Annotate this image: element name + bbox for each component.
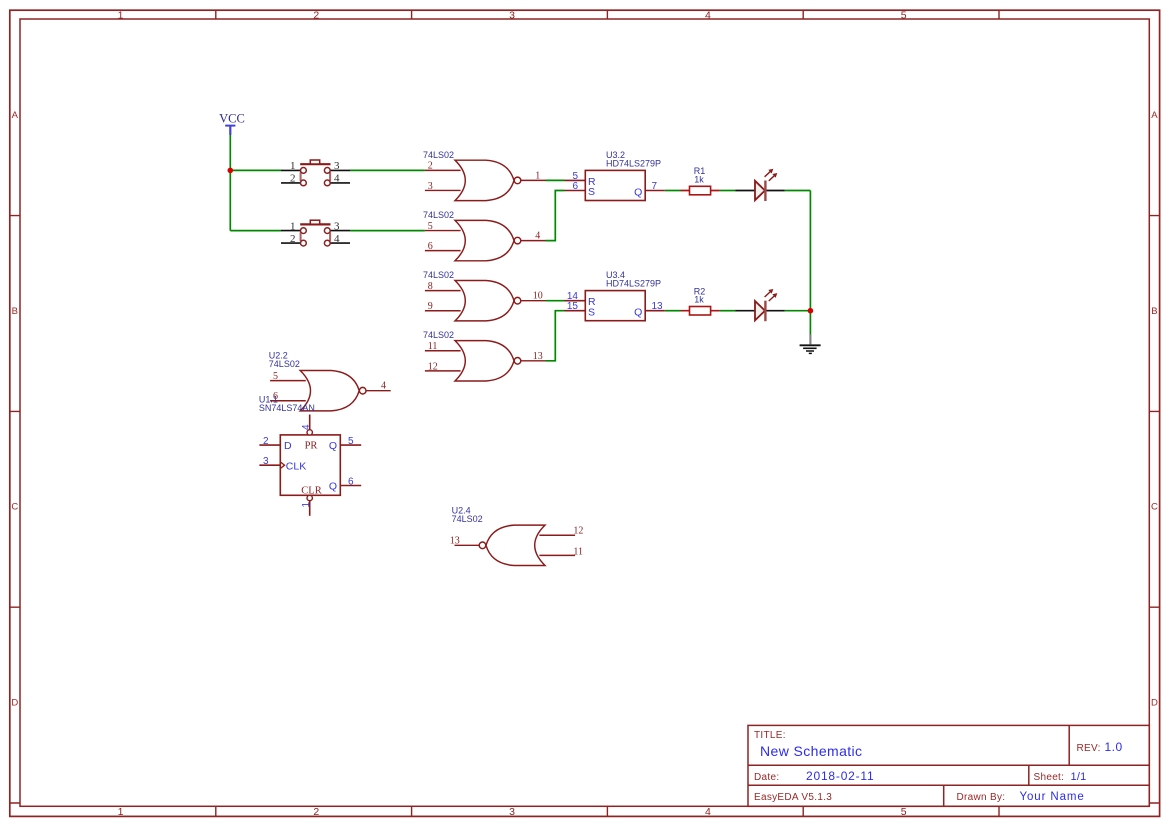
svg-text:2: 2: [313, 10, 319, 22]
svg-text:74LS02: 74LS02: [423, 270, 454, 280]
svg-text:C: C: [1151, 502, 1158, 513]
frame ruler numbers top: [118, 10, 907, 22]
svg-text:8: 8: [428, 281, 433, 292]
svg-text:D: D: [11, 697, 18, 708]
wire R1 to LED1: [720, 190, 736, 192]
frame ruler letters left: [11, 110, 18, 708]
svg-text:B: B: [12, 306, 18, 317]
svg-text:74LS02: 74LS02: [269, 359, 300, 369]
NOR gate U2.4 mirrored: [450, 506, 584, 566]
svg-text:A: A: [1151, 110, 1158, 121]
resistor R2: [681, 286, 720, 315]
svg-text:10: 10: [533, 291, 543, 302]
svg-text:HD74LS279P: HD74LS279P: [606, 158, 661, 168]
wire S1 pin3 to U2 pin2: [350, 169, 425, 171]
svg-text:B: B: [1151, 306, 1157, 317]
svg-text:2: 2: [290, 233, 296, 245]
svg-text:1: 1: [301, 502, 312, 508]
wire U3.2 Q to R1: [665, 190, 681, 192]
svg-text:4: 4: [334, 173, 340, 185]
svg-text:2: 2: [263, 436, 269, 447]
svg-text:5: 5: [901, 806, 907, 818]
svg-text:2: 2: [313, 806, 319, 818]
svg-text:3: 3: [263, 456, 269, 467]
svg-text:11: 11: [573, 546, 583, 557]
svg-text:S: S: [588, 186, 595, 198]
svg-text:CLK: CLK: [286, 460, 306, 472]
wire gate2 out to U3.2 S: [546, 191, 565, 241]
svg-text:TITLE:: TITLE:: [754, 730, 786, 741]
wire gate1 out to U3.2 R: [546, 179, 565, 181]
svg-text:6: 6: [572, 181, 578, 192]
svg-text:VCC: VCC: [219, 111, 245, 125]
svg-text:PR: PR: [305, 440, 318, 451]
svg-text:4: 4: [334, 233, 340, 245]
svg-text:2: 2: [428, 161, 433, 172]
frame ruler letters right: [1151, 110, 1158, 708]
svg-text:5: 5: [901, 10, 907, 22]
svg-text:New Schematic: New Schematic: [760, 743, 862, 759]
svg-text:REV:: REV:: [1077, 743, 1101, 754]
svg-text:3: 3: [509, 10, 515, 22]
svg-text:1: 1: [118, 806, 124, 818]
wire LED1 to right rail: [785, 190, 811, 192]
wire U3.4 Q to R2: [665, 310, 681, 312]
svg-text:1: 1: [290, 160, 296, 172]
svg-text:4: 4: [301, 424, 312, 430]
svg-text:2018-02-11: 2018-02-11: [806, 769, 875, 783]
svg-text:1.0: 1.0: [1105, 740, 1123, 754]
svg-text:3: 3: [334, 160, 340, 172]
svg-text:13: 13: [652, 301, 664, 312]
svg-text:12: 12: [573, 525, 583, 536]
svg-text:4: 4: [705, 806, 711, 818]
svg-text:Q: Q: [634, 307, 642, 319]
svg-text:SN74LS74AN: SN74LS74AN: [259, 403, 315, 413]
svg-text:74LS02: 74LS02: [423, 330, 454, 340]
flip-flop U1 SN74LS74AN: [259, 395, 361, 516]
svg-text:A: A: [12, 110, 19, 121]
LED1: [736, 169, 785, 201]
NOR gate U2.1: [423, 150, 546, 201]
svg-text:1: 1: [535, 170, 540, 181]
svg-text:CLR: CLR: [301, 486, 321, 497]
svg-text:74LS02: 74LS02: [423, 150, 454, 160]
junction at VCC branch: [228, 168, 234, 174]
svg-text:5: 5: [428, 221, 433, 232]
wire VCC to S2 pin1: [230, 230, 281, 232]
svg-text:6: 6: [348, 476, 354, 487]
pushbutton S2: [281, 220, 350, 246]
svg-text:D: D: [284, 440, 292, 452]
svg-text:HD74LS279P: HD74LS279P: [606, 279, 661, 289]
svg-text:Your Name: Your Name: [1020, 791, 1085, 803]
wire R2 to LED2: [720, 310, 736, 312]
svg-text:6: 6: [428, 241, 433, 252]
title block texts: [754, 730, 1123, 803]
pushbutton S1: [281, 160, 350, 186]
svg-text:Date:: Date:: [754, 772, 779, 783]
frame ruler numbers bottom: [118, 806, 907, 818]
wire S2 pin3 to U2 pin5: [350, 230, 425, 232]
NOR gate U2 fourth: [423, 330, 546, 381]
svg-text:4: 4: [535, 231, 540, 242]
LED2: [736, 290, 785, 322]
svg-text:1: 1: [118, 10, 124, 22]
VCC power symbol: [225, 126, 235, 135]
svg-text:Q: Q: [329, 480, 337, 492]
svg-text:5: 5: [348, 436, 354, 447]
svg-text:4: 4: [381, 381, 386, 392]
svg-text:Sheet:: Sheet:: [1034, 772, 1065, 783]
wire right rail vertical: [809, 191, 811, 335]
svg-text:D: D: [1151, 697, 1158, 708]
title block frame: [748, 725, 1149, 806]
svg-text:3: 3: [428, 181, 433, 192]
wire VCC vertical: [229, 135, 231, 231]
svg-text:1k: 1k: [694, 295, 704, 305]
wire gate3 out to U3.4 R: [546, 300, 565, 302]
latch U3.2 HD74LS279P: [565, 150, 665, 201]
junction at LED2 rail: [808, 308, 814, 314]
svg-text:5: 5: [273, 371, 278, 382]
svg-text:1: 1: [290, 220, 296, 232]
svg-text:2: 2: [290, 173, 296, 185]
svg-text:EasyEDA V5.1.3: EasyEDA V5.1.3: [754, 792, 832, 803]
ground: [800, 335, 821, 354]
wire LED2 to right rail: [785, 310, 811, 312]
svg-text:13: 13: [533, 351, 543, 362]
svg-text:9: 9: [428, 301, 433, 312]
svg-text:4: 4: [705, 10, 711, 22]
svg-text:74LS02: 74LS02: [452, 514, 483, 524]
svg-text:7: 7: [652, 181, 658, 192]
svg-text:74LS02: 74LS02: [423, 210, 454, 220]
NOR gate U2 second: [423, 210, 546, 261]
svg-text:11: 11: [428, 341, 438, 352]
svg-text:3: 3: [334, 220, 340, 232]
svg-text:1k: 1k: [694, 175, 704, 185]
wire gate4 out to U3.4 S: [546, 311, 565, 361]
resistor R1: [681, 166, 720, 195]
svg-text:15: 15: [567, 301, 579, 312]
wire VCC to S1 pin1: [230, 169, 281, 171]
svg-text:Q: Q: [329, 440, 337, 452]
NOR gate U2 third: [423, 270, 546, 321]
svg-text:S: S: [588, 306, 595, 318]
svg-text:Q: Q: [634, 186, 642, 198]
svg-text:Drawn By:: Drawn By:: [957, 792, 1006, 803]
latch U3.4 HD74LS279P: [565, 270, 665, 321]
svg-text:3: 3: [509, 806, 515, 818]
svg-text:1/1: 1/1: [1071, 771, 1087, 783]
svg-text:12: 12: [428, 361, 438, 372]
NOR gate U2.2: [269, 350, 391, 411]
svg-text:C: C: [11, 502, 18, 513]
svg-text:13: 13: [450, 535, 460, 546]
